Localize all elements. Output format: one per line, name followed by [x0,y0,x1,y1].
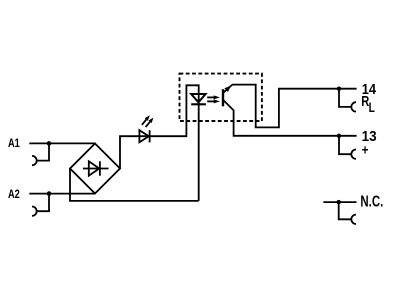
svg-text:A2: A2 [8,188,20,201]
svg-text:N.C.: N.C. [360,193,383,210]
svg-text:A1: A1 [8,137,20,150]
svg-text:+: + [362,141,369,157]
svg-text:L: L [369,99,376,115]
